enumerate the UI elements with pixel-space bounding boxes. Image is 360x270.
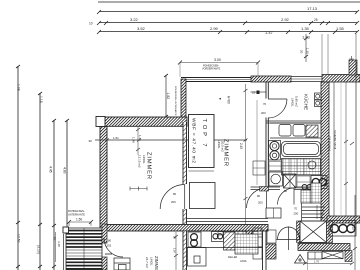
- svg-text:10: 10: [89, 22, 93, 26]
- svg-text:KÜCHE: KÜCHE: [304, 94, 310, 110]
- svg-text:200: 200: [261, 111, 266, 115]
- svg-text:20: 20: [300, 50, 304, 54]
- svg-text:KELLER: KELLER: [228, 256, 237, 259]
- svg-text:25: 25: [314, 18, 318, 22]
- svg-text:LINOL: LINOL: [240, 260, 248, 263]
- svg-text:LINOL: LINOL: [291, 98, 295, 107]
- svg-text:1.18: 1.18: [39, 96, 43, 103]
- svg-text:H=60: H=60: [227, 96, 231, 104]
- svg-text:1.51: 1.51: [113, 136, 119, 140]
- svg-text:1.55: 1.55: [336, 26, 345, 31]
- svg-text:5.98 m2: 5.98 m2: [295, 96, 299, 107]
- svg-text:3.00: 3.00: [214, 58, 221, 62]
- svg-text:200: 200: [294, 212, 299, 216]
- svg-text:25: 25: [252, 91, 256, 95]
- svg-text:WBF = 47.40 m2: WBF = 47.40 m2: [191, 118, 197, 163]
- svg-text:3.22: 3.22: [130, 17, 139, 22]
- svg-text:3.52: 3.52: [137, 26, 146, 31]
- svg-text:UNTERKANTE: UNTERKANTE: [68, 214, 85, 217]
- svg-text:LINOL: LINOL: [217, 140, 221, 149]
- svg-text:59: 59: [53, 237, 57, 241]
- svg-text:20.5 m2: 20.5 m2: [221, 141, 225, 152]
- svg-text:70: 70: [294, 207, 298, 211]
- svg-text:12.15 m2: 12.15 m2: [138, 155, 142, 168]
- svg-text:3.18: 3.18: [57, 241, 61, 247]
- svg-text:80: 80: [257, 194, 261, 198]
- svg-text:24.7 m2: 24.7 m2: [145, 257, 149, 268]
- svg-text:1.08: 1.08: [17, 84, 21, 91]
- svg-text:(3.10): (3.10): [37, 245, 41, 254]
- svg-text:2.92: 2.92: [281, 17, 290, 22]
- svg-text:SCHEIBE SB 18: SCHEIBE SB 18: [333, 130, 337, 150]
- svg-text:1.82: 1.82: [166, 93, 170, 100]
- svg-text:1.48: 1.48: [132, 137, 136, 143]
- svg-text:70: 70: [263, 102, 267, 106]
- svg-text:200: 200: [171, 200, 176, 204]
- svg-text:1.50: 1.50: [76, 218, 82, 222]
- svg-text:1.47: 1.47: [265, 30, 274, 35]
- svg-text:30: 30: [89, 139, 93, 143]
- svg-text:1.35: 1.35: [301, 26, 310, 31]
- svg-text:2.45: 2.45: [239, 143, 243, 149]
- svg-text:200: 200: [258, 201, 263, 205]
- svg-text:2.99: 2.99: [210, 26, 219, 31]
- svg-text:80: 80: [284, 189, 288, 193]
- svg-text:12.50: 12.50: [17, 234, 21, 243]
- svg-text:202: 202: [107, 244, 112, 248]
- svg-text:LINOL: LINOL: [142, 155, 146, 164]
- svg-text:VORDERKANTE: VORDERKANTE: [202, 68, 221, 71]
- svg-text:80: 80: [173, 192, 177, 196]
- svg-text:4.80: 4.80: [63, 167, 67, 174]
- svg-text:1.34: 1.34: [138, 135, 142, 141]
- svg-text:1.34: 1.34: [173, 248, 176, 253]
- svg-text:ZIMMER: ZIMMER: [154, 256, 159, 270]
- svg-text:LINOL: LINOL: [150, 257, 154, 266]
- svg-text:1.20: 1.20: [351, 225, 354, 230]
- svg-text:1.30: 1.30: [306, 48, 310, 54]
- svg-text:ROHDECKEN-UNTERKANTE: ROHDECKEN-UNTERKANTE: [174, 86, 177, 116]
- svg-text:4.45: 4.45: [49, 166, 53, 173]
- svg-text:ZIMMER: ZIMMER: [146, 152, 152, 179]
- svg-text:CM 18 34/34: CM 18 34/34: [328, 136, 332, 151]
- svg-text:80: 80: [108, 239, 112, 243]
- svg-text:17.13: 17.13: [307, 6, 318, 11]
- svg-text:1.70: 1.70: [314, 260, 320, 264]
